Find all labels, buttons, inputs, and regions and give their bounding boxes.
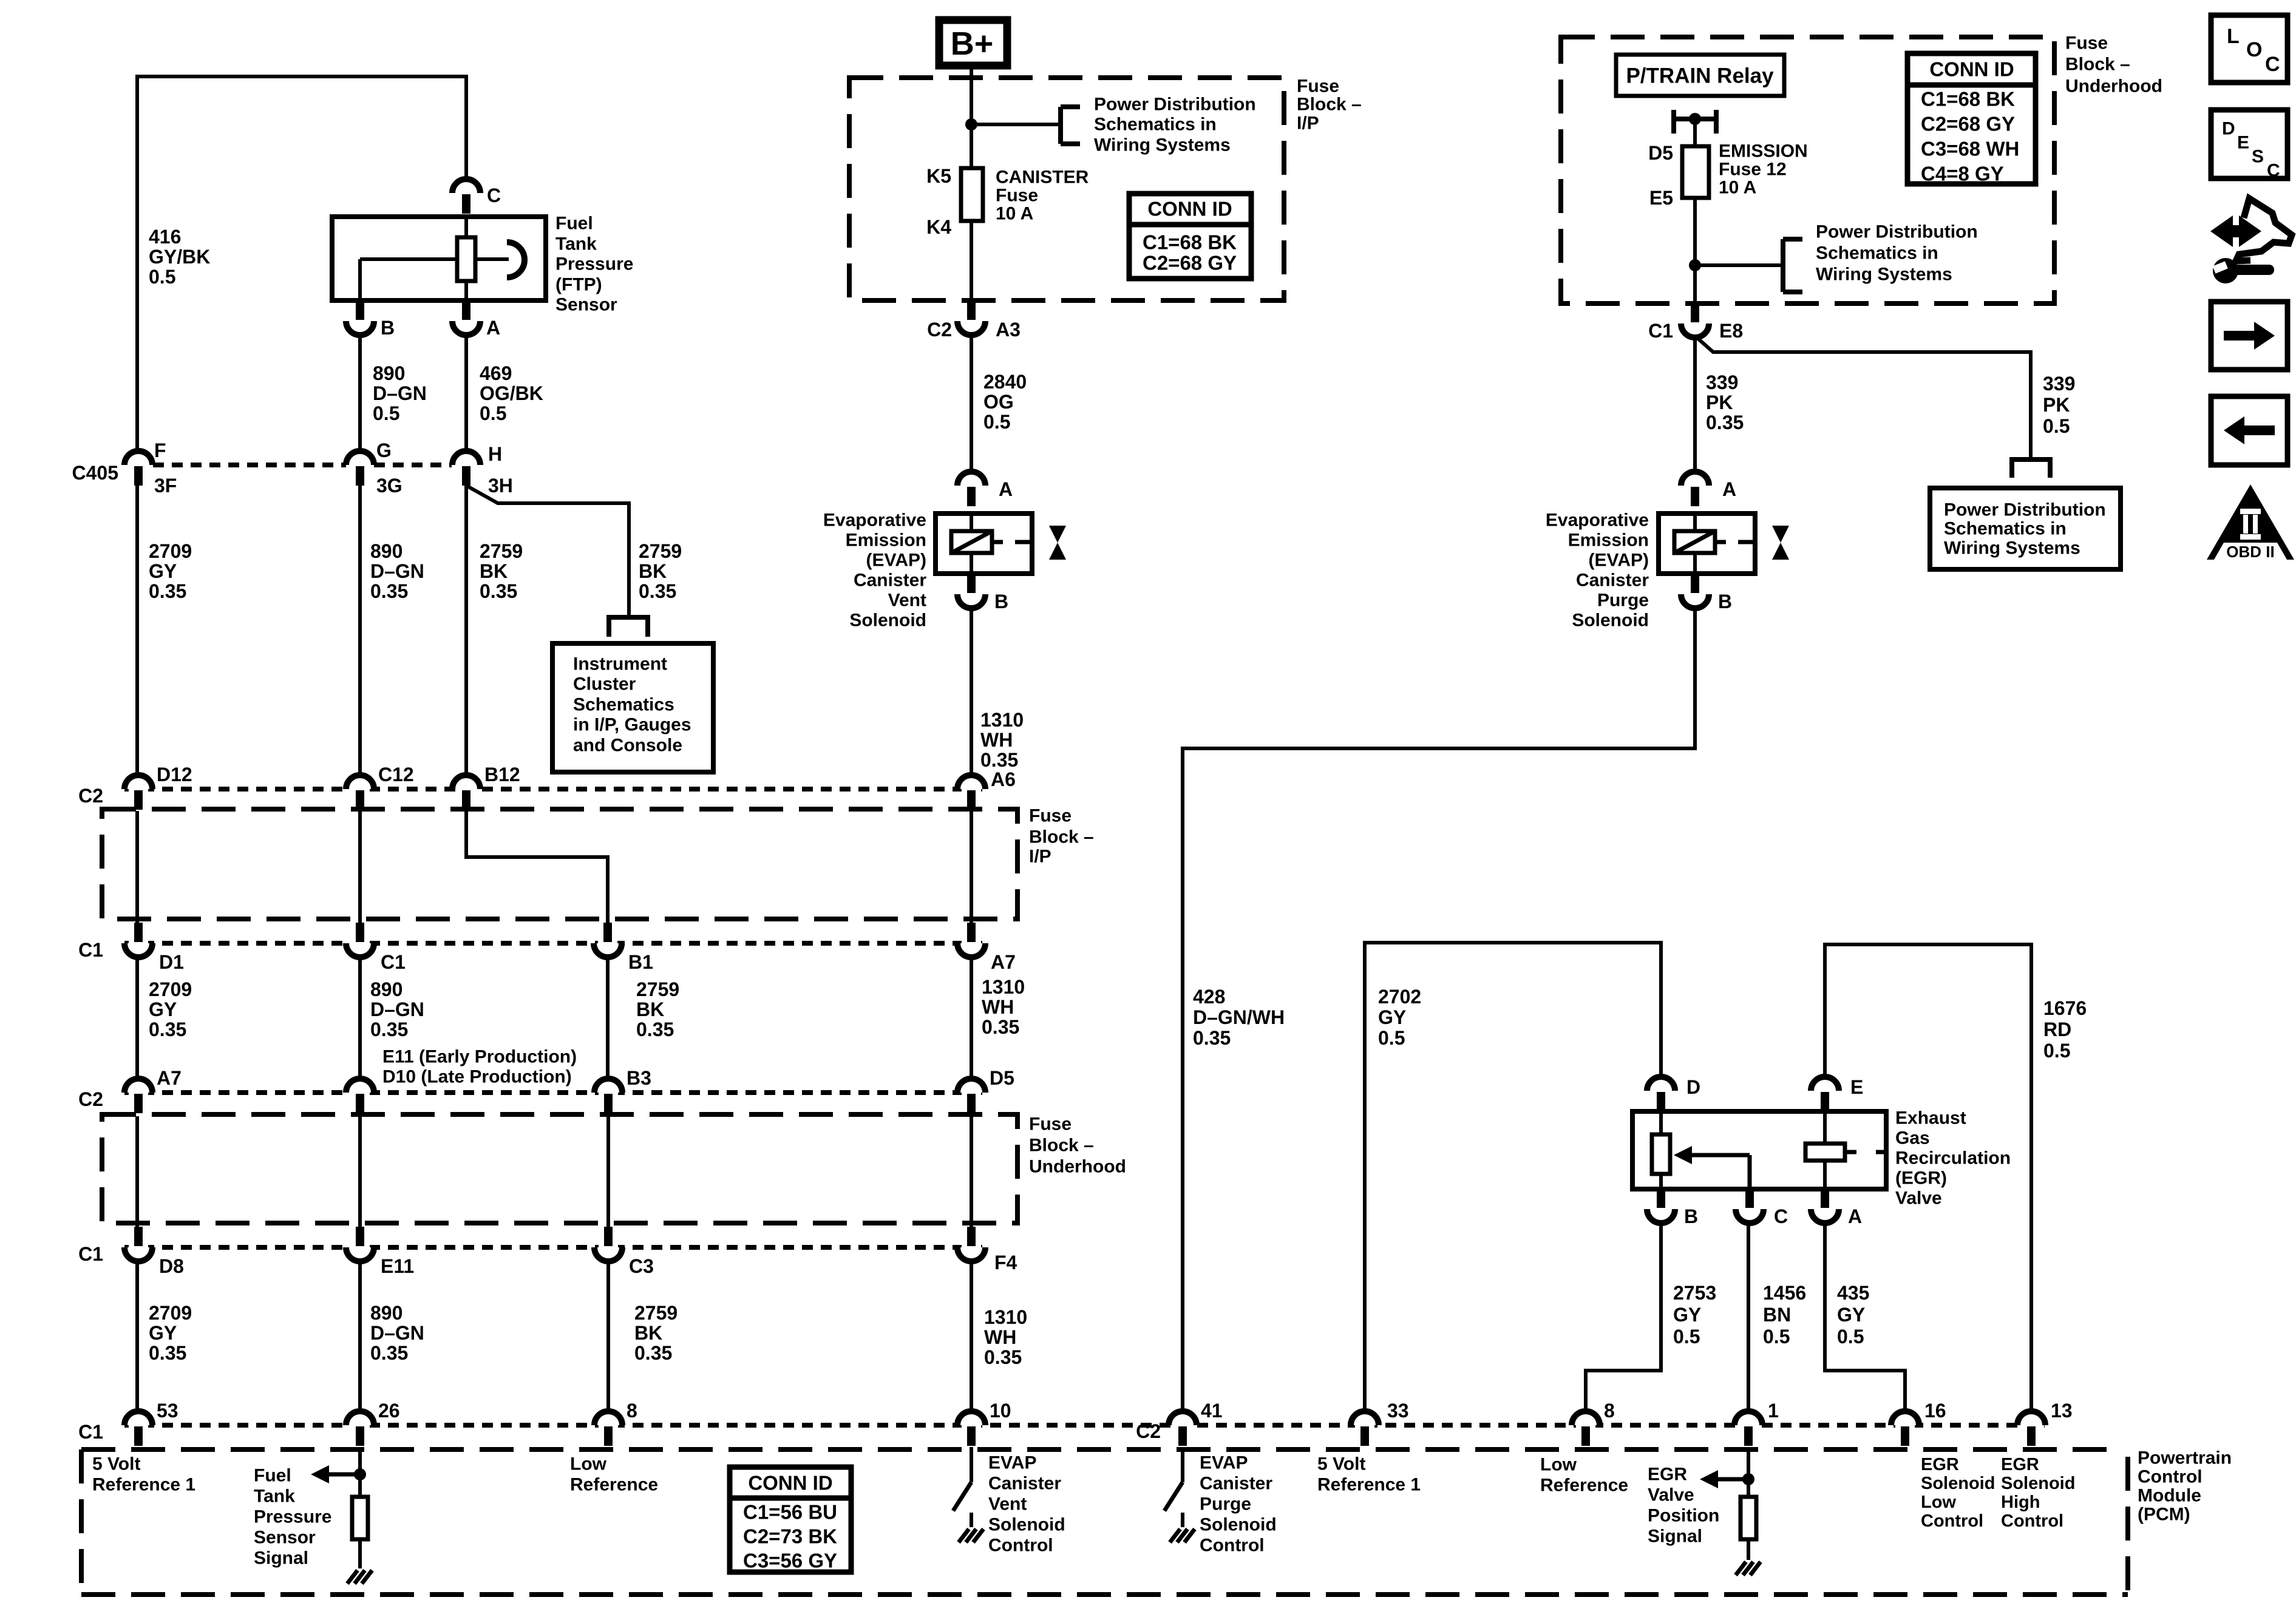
svg-text:I/P: I/P [1029, 847, 1051, 867]
svg-text:Schematics: Schematics [573, 695, 674, 715]
svg-text:0.35: 0.35 [634, 1342, 672, 1364]
connector C405 pin H [452, 443, 513, 497]
svg-text:Fuse: Fuse [1297, 76, 1339, 97]
wire label 2759 BK 0.35 [480, 540, 523, 602]
svg-text:Power Distribution: Power Distribution [1944, 500, 2106, 520]
svg-text:D: D [1686, 1076, 1700, 1098]
wire label 2709 GY 0.35 [149, 540, 192, 602]
svg-text:E5: E5 [1649, 187, 1673, 209]
svg-text:Reference: Reference [570, 1475, 658, 1495]
svg-text:Evaporative: Evaporative [823, 510, 926, 531]
powertrain control module dashed box [81, 1449, 2128, 1595]
svg-text:0.5: 0.5 [983, 411, 1010, 433]
connector pin A of FTP sensor [452, 300, 500, 339]
svg-text:Control: Control [988, 1536, 1053, 1556]
EGR valve box [1632, 1111, 1886, 1189]
wire 1310 WH 0.35 segment (F4-10) [970, 1261, 973, 1411]
svg-text:428: 428 [1193, 986, 1225, 1008]
svg-text:C: C [1774, 1205, 1788, 1227]
svg-text:Fuse: Fuse [996, 186, 1038, 206]
wire 2709 GY 0.35 segment [135, 486, 139, 775]
svg-text:0.35: 0.35 [982, 1016, 1019, 1038]
svg-text:B+: B+ [951, 25, 994, 62]
svg-text:A7: A7 [157, 1067, 182, 1089]
svg-text:WH: WH [984, 1326, 1016, 1348]
power distribution note (underhood) [1816, 222, 1978, 285]
purge solenoid valve symbol [1772, 526, 1789, 560]
svg-text:GY: GY [149, 560, 177, 582]
ground (FTP signal) [347, 1570, 372, 1584]
fuse block underhood dashed box (top right) [1561, 37, 2054, 303]
connector C1 label [78, 939, 103, 961]
svg-text:Reference 1: Reference 1 [1317, 1475, 1421, 1495]
svg-text:0.35: 0.35 [370, 1342, 408, 1364]
svg-text:C1: C1 [381, 951, 406, 973]
svg-text:Gas: Gas [1895, 1128, 1930, 1148]
svg-text:Reference 1: Reference 1 [92, 1475, 195, 1495]
svg-text:Low: Low [1921, 1493, 1956, 1512]
wire label 890 D-GN 0.35 [370, 540, 424, 602]
svg-text:OG/BK: OG/BK [480, 382, 543, 404]
svg-text:B: B [1684, 1205, 1698, 1227]
EGR potentiometer wiper arrow [1674, 1146, 1750, 1189]
connector row C1 dotted line [124, 941, 985, 946]
svg-text:3H: 3H [488, 475, 513, 497]
svg-text:and Console: and Console [573, 736, 682, 756]
svg-text:OBD II: OBD II [2226, 543, 2274, 561]
EMISSION fuse D5/E5 [1648, 142, 1709, 209]
svg-text:0.5: 0.5 [2043, 415, 2070, 437]
connector pin B of purge solenoid [1681, 574, 1732, 612]
vent solenoid valve symbol [1049, 526, 1066, 560]
svg-text:A: A [1722, 478, 1736, 500]
power distribution schematics box [1930, 488, 2121, 569]
connector C2/A3 [927, 300, 1021, 341]
svg-text:C2=68 GY: C2=68 GY [1143, 252, 1237, 274]
connector pin D12 [124, 764, 192, 810]
svg-text:D5: D5 [1648, 142, 1673, 164]
svg-text:0.35: 0.35 [1193, 1027, 1231, 1049]
connector C2 label [78, 785, 103, 807]
svg-text:BK: BK [634, 1322, 662, 1344]
vent solenoid coil [951, 514, 1032, 574]
CONN ID table (fuse block underhood) [1907, 53, 2036, 185]
svg-text:Canister: Canister [988, 1474, 1061, 1494]
svg-text:C2: C2 [1136, 1420, 1161, 1442]
svg-text:Block –: Block – [1029, 1136, 1094, 1156]
fuel tank pressure sensor box [332, 217, 546, 300]
svg-text:Vent: Vent [988, 1494, 1027, 1514]
svg-text:1310: 1310 [984, 1306, 1027, 1328]
svg-text:2702: 2702 [1378, 986, 1421, 1008]
svg-text:EVAP: EVAP [1200, 1453, 1248, 1473]
svg-text:Solenoid: Solenoid [988, 1515, 1065, 1535]
svg-text:890: 890 [373, 362, 405, 384]
EGR valve coil [1805, 1111, 1886, 1189]
svg-text:D–GN/WH: D–GN/WH [1193, 1006, 1285, 1028]
svg-text:Power Distribution: Power Distribution [1094, 95, 1256, 115]
EGR solenoid low control label [1921, 1455, 1995, 1531]
EMISSION fuse label [1719, 141, 1808, 198]
svg-text:G: G [376, 439, 392, 461]
connector C405 pin F [124, 439, 177, 497]
connector C2 label 2 [78, 1088, 103, 1110]
svg-text:High: High [2001, 1493, 2040, 1512]
EGR valve position potentiometer [1652, 1111, 1670, 1189]
svg-text:Sensor: Sensor [555, 295, 617, 315]
svg-text:Powertrain: Powertrain [2138, 1448, 2232, 1468]
wire label 1456 BN 0.5 [1763, 1282, 1806, 1347]
fuse block I/P dashed box (left) [102, 806, 1094, 920]
wire 2759 BK 0.35 segment 2 [606, 957, 610, 1079]
wire fuse to junction [1693, 198, 1697, 303]
P/TRAIN relay feed bracket [1674, 110, 1716, 134]
power distribution bracket (339 PK) [2012, 459, 2050, 478]
wire 339 PK 0.5 branch [1698, 339, 2031, 458]
svg-text:BK: BK [636, 998, 664, 1020]
wire C12 to C1 in fuse block [358, 811, 362, 923]
svg-text:53: 53 [157, 1400, 178, 1422]
EGR valve position signal label [1648, 1465, 1719, 1547]
svg-text:0.35: 0.35 [980, 749, 1018, 771]
svg-text:10: 10 [990, 1400, 1011, 1422]
svg-text:C1: C1 [1648, 320, 1673, 342]
svg-text:BN: BN [1763, 1304, 1791, 1326]
svg-text:0.5: 0.5 [373, 402, 399, 424]
svg-text:2840: 2840 [983, 371, 1027, 393]
PCM low reference (left) [570, 1454, 658, 1495]
connector pin A7 [957, 923, 1016, 973]
svg-text:D–GN: D–GN [370, 1322, 424, 1344]
svg-text:K5: K5 [926, 165, 951, 187]
connector pin 8 (low ref right) [1572, 1400, 1615, 1446]
fuel tank pressure sensor signal net [311, 1447, 366, 1497]
svg-text:Wiring Systems: Wiring Systems [1944, 538, 2080, 558]
svg-text:8: 8 [1604, 1400, 1615, 1422]
svg-text:2759: 2759 [634, 1302, 678, 1324]
connector pin 16 [1891, 1400, 1946, 1446]
wire 890 D-GN 0.35 segment 2 [358, 957, 362, 1079]
EVAP canister vent solenoid label [823, 510, 926, 631]
note E11 early production [382, 1047, 577, 1067]
svg-text:Wiring Systems: Wiring Systems [1094, 135, 1231, 155]
svg-text:C1=68 BK: C1=68 BK [1921, 88, 2015, 110]
EGR valve position signal net [1700, 1447, 1754, 1497]
svg-text:5 Volt: 5 Volt [92, 1454, 140, 1474]
fuse block I/P dashed box (top middle) [849, 78, 1284, 300]
svg-text:A6: A6 [991, 768, 1016, 790]
wire label 2702 GY 0.5 [1378, 986, 1421, 1049]
svg-text:BK: BK [480, 560, 508, 582]
svg-text:1310: 1310 [980, 709, 1024, 731]
svg-text:Emission: Emission [1568, 531, 1649, 551]
svg-text:CONN ID: CONN ID [1929, 58, 2014, 81]
connector pin B1 [594, 923, 653, 973]
note D10 late production [382, 1067, 572, 1087]
svg-text:0.5: 0.5 [1378, 1027, 1405, 1049]
svg-text:E: E [1850, 1076, 1863, 1098]
svg-text:41: 41 [1201, 1400, 1223, 1422]
forward arrow icon box [2211, 302, 2288, 370]
svg-text:D5: D5 [990, 1067, 1014, 1089]
svg-text:I/P: I/P [1297, 114, 1319, 134]
wire label 890 D-GN 0.35 (3) [370, 1302, 424, 1364]
svg-text:Pressure: Pressure [555, 254, 633, 274]
connector pin A of vent solenoid [957, 472, 1013, 506]
svg-text:EVAP: EVAP [988, 1453, 1036, 1473]
svg-text:B: B [381, 317, 395, 339]
svg-text:1310: 1310 [982, 976, 1025, 998]
svg-text:16: 16 [1924, 1400, 1946, 1422]
wire label 1310 WH 0.35 (top) [980, 709, 1024, 771]
svg-text:Control: Control [1200, 1536, 1265, 1556]
svg-text:339: 339 [1706, 371, 1738, 393]
svg-text:10 A: 10 A [996, 204, 1033, 224]
wire label 2759 BK 0.35 (branch) [639, 540, 682, 602]
svg-text:GY: GY [1378, 1006, 1406, 1028]
wire label 339 PK 0.35 [1706, 371, 1744, 433]
wire 2759 BK branch to instrument cluster [466, 486, 629, 616]
connector row C2 dotted line [124, 787, 985, 792]
svg-text:8: 8 [627, 1400, 637, 1422]
connector pin A of EGR valve [1811, 1188, 1862, 1227]
svg-text:D–GN: D–GN [373, 382, 427, 404]
CANISTER fuse K5/K4 [926, 165, 983, 238]
svg-text:C1: C1 [78, 939, 103, 961]
FTP sensor internal wiper wiring [360, 242, 525, 300]
svg-text:(FTP): (FTP) [555, 275, 602, 295]
wire 890 D-GN 0.35 segment [358, 486, 362, 775]
connector C1 label 2 [78, 1243, 103, 1265]
svg-text:Module: Module [2138, 1486, 2201, 1506]
svg-text:D–GN: D–GN [370, 998, 424, 1020]
svg-text:B: B [994, 591, 1008, 612]
wire 469 OG/BK 0.5 [464, 335, 468, 451]
svg-text:Exhaust: Exhaust [1895, 1108, 1966, 1128]
svg-text:B1: B1 [628, 951, 653, 973]
connector pin 26 [346, 1400, 400, 1446]
svg-text:C4=8 GY: C4=8 GY [1921, 163, 2004, 185]
svg-text:0.5: 0.5 [1763, 1326, 1790, 1347]
connector pin A7 (row2) [124, 1067, 182, 1113]
svg-text:33: 33 [1387, 1400, 1409, 1422]
svg-text:B: B [1718, 591, 1732, 612]
wire 435 GY 0.5 [1825, 1223, 1905, 1411]
EVAP canister purge solenoid box [1659, 514, 1755, 574]
back arrow icon box [2211, 396, 2288, 465]
svg-text:A3: A3 [996, 319, 1021, 341]
svg-text:GY: GY [1837, 1304, 1865, 1326]
CONN ID table (fuse block I/P) [1129, 194, 1251, 279]
connector pin B of vent solenoid [957, 574, 1008, 612]
wire 2709 GY 0.35 segment 2 [135, 957, 139, 1079]
wire 2759 BK 0.35 segment [464, 486, 468, 775]
connector C1/E8 [1648, 303, 1743, 342]
svg-text:2753: 2753 [1673, 1282, 1716, 1304]
svg-text:S: S [2252, 147, 2264, 167]
svg-text:Block –: Block – [1029, 827, 1094, 847]
svg-text:0.35: 0.35 [149, 580, 186, 602]
EVAP purge solenoid control switch [1164, 1447, 1183, 1527]
svg-text:GY: GY [149, 998, 177, 1020]
ground (purge solenoid control) [1170, 1529, 1195, 1542]
wire label 416 GY/BK 0.5 [149, 226, 210, 288]
svg-text:D: D [2222, 119, 2235, 139]
PCM connector C2 label [1136, 1420, 1161, 1442]
svg-text:PK: PK [2043, 394, 2070, 416]
wire B12 jog to B1 in fuse block [466, 811, 608, 923]
svg-text:469: 469 [480, 362, 512, 384]
connector pin C12 [346, 764, 414, 810]
connector C405 dashed line [153, 463, 452, 467]
svg-text:C1=56 BU: C1=56 BU [743, 1501, 837, 1524]
svg-text:2709: 2709 [149, 1302, 192, 1324]
LOC icon box [2211, 15, 2288, 83]
instrument cluster connect bracket [609, 617, 648, 637]
fuse block underhood dashed box (left) [102, 1114, 1126, 1224]
wire 2840 OG 0.5 [970, 335, 973, 472]
svg-text:Valve: Valve [1895, 1188, 1942, 1209]
svg-text:2709: 2709 [149, 978, 192, 1000]
EVAP canister vent solenoid box [936, 514, 1032, 574]
wire label 1310 WH 0.35 (2) [984, 1306, 1027, 1368]
CONN ID table (PCM) [730, 1467, 851, 1572]
svg-text:Vent: Vent [888, 591, 926, 611]
svg-text:Solenoid: Solenoid [2001, 1474, 2075, 1493]
svg-text:890: 890 [370, 978, 402, 1000]
connector pin D8 [124, 1227, 184, 1277]
svg-text:Purge: Purge [1200, 1494, 1251, 1514]
connector pin F4 [957, 1227, 1017, 1273]
svg-text:0.5: 0.5 [149, 266, 175, 288]
svg-text:A: A [1848, 1205, 1862, 1227]
svg-text:Block –: Block – [1297, 95, 1362, 115]
connector pin 13 [2017, 1400, 2073, 1446]
svg-text:0.5: 0.5 [480, 402, 506, 424]
connector pin 10 [957, 1400, 1011, 1446]
svg-text:Solenoid: Solenoid [1200, 1515, 1277, 1535]
EVAP canister purge solenoid label [1546, 510, 1649, 631]
svg-text:3F: 3F [154, 475, 177, 497]
connector pin 33 [1351, 1400, 1409, 1446]
wire label 2840 OG 0.5 [983, 371, 1027, 433]
svg-text:Power Distribution: Power Distribution [1816, 222, 1978, 242]
svg-text:Signal: Signal [1648, 1527, 1702, 1547]
svg-text:0.5: 0.5 [1837, 1326, 1864, 1347]
svg-text:Evaporative: Evaporative [1546, 510, 1649, 531]
svg-text:Underhood: Underhood [1029, 1157, 1126, 1177]
fuse block I/P title [1297, 76, 1362, 134]
wire 1676 RD 0.5 [1825, 944, 2031, 1411]
svg-text:Schematics in: Schematics in [1944, 519, 2067, 539]
svg-text:(PCM): (PCM) [2138, 1505, 2190, 1525]
svg-text:A7: A7 [991, 951, 1016, 973]
svg-text:3G: 3G [376, 475, 402, 497]
svg-text:E11: E11 [381, 1255, 414, 1277]
svg-text:E8: E8 [1719, 320, 1743, 342]
svg-text:GY: GY [149, 1322, 177, 1344]
power distribution note (I/P) [1094, 95, 1256, 155]
wire label 2709 GY 0.35 (2) [149, 978, 192, 1040]
wire label 469 OG/BK 0.5 [480, 362, 543, 424]
svg-text:in I/P, Gauges: in I/P, Gauges [573, 715, 691, 735]
connector pin 1 [1734, 1400, 1779, 1446]
svg-text:Purge: Purge [1597, 591, 1649, 611]
connector pin E11 (row) [346, 1227, 414, 1277]
fuse block underhood title [2065, 33, 2162, 97]
svg-text:L: L [2227, 25, 2240, 48]
svg-text:Low: Low [570, 1454, 607, 1474]
svg-text:Cluster: Cluster [573, 674, 636, 694]
svg-text:EGR: EGR [1648, 1465, 1687, 1485]
svg-text:Schematics in: Schematics in [1094, 115, 1217, 135]
svg-text:Fuse 12: Fuse 12 [1719, 160, 1787, 180]
svg-text:0.35: 0.35 [149, 1019, 186, 1040]
connector pin E11/D10 [346, 1079, 374, 1113]
purge solenoid coil [1674, 514, 1755, 574]
svg-text:416: 416 [149, 226, 181, 248]
connector pin C of FTP sensor [452, 179, 501, 214]
wire 1310 WH 0.35 segment (A7-D5) [970, 957, 973, 1079]
wire label 1310 WH 0.35 [982, 976, 1025, 1038]
svg-text:C1=68 BK: C1=68 BK [1143, 231, 1237, 254]
svg-text:Wiring Systems: Wiring Systems [1816, 265, 1952, 285]
svg-text:Canister: Canister [1576, 571, 1649, 591]
svg-text:K4: K4 [926, 216, 951, 238]
wire label 2759 BK 0.35 (2) [636, 978, 679, 1040]
svg-text:C1: C1 [78, 1421, 103, 1443]
connector pin E of EGR valve [1811, 1076, 1863, 1111]
svg-text:P/TRAIN Relay: P/TRAIN Relay [1626, 64, 1774, 88]
wire A7-D8 in fuse block [135, 1116, 139, 1227]
svg-text:Valve: Valve [1648, 1485, 1694, 1505]
svg-text:0.5: 0.5 [2043, 1040, 2070, 1062]
ground (EGR position signal) [1736, 1562, 1761, 1575]
EGR position signal resistor [1741, 1497, 1756, 1560]
PCM connector row dotted line [124, 1423, 2045, 1428]
svg-text:Fuel: Fuel [254, 1466, 291, 1486]
svg-text:Fuse: Fuse [1029, 1114, 1072, 1134]
svg-text:2759: 2759 [639, 540, 682, 562]
svg-text:A: A [999, 478, 1013, 500]
svg-text:2759: 2759 [480, 540, 523, 562]
svg-text:Fuse: Fuse [2065, 33, 2108, 53]
PCM 5 volt reference 1 (right) [1317, 1454, 1421, 1495]
svg-text:890: 890 [370, 1302, 402, 1324]
svg-text:Fuel: Fuel [555, 214, 593, 234]
svg-text:0.35: 0.35 [149, 1342, 186, 1364]
wire 2759 BK 0.35 segment 3 [606, 1261, 610, 1411]
svg-text:Signal: Signal [254, 1548, 308, 1568]
connector pin 8 (low ref left) [594, 1400, 637, 1446]
svg-text:Solenoid: Solenoid [1572, 611, 1649, 631]
svg-text:C2=73 BK: C2=73 BK [743, 1525, 837, 1548]
svg-text:Canister: Canister [1200, 1474, 1272, 1494]
connector C405 label [72, 462, 119, 484]
svg-text:0.35: 0.35 [1706, 412, 1744, 433]
svg-text:EMISSION: EMISSION [1719, 141, 1808, 161]
wire E11-E11 in fuse block [358, 1116, 362, 1227]
svg-text:CONN ID: CONN ID [1147, 198, 1232, 220]
wire label 428 D-GN/WH 0.35 [1193, 986, 1285, 1049]
svg-text:BK: BK [639, 560, 667, 582]
svg-text:Control: Control [2138, 1467, 2203, 1487]
P/TRAIN relay box [1616, 55, 1784, 96]
PCM connector C1 label [78, 1421, 103, 1443]
wire label 339 PK 0.5 [2043, 373, 2075, 437]
svg-text:WH: WH [980, 729, 1013, 751]
PCM low reference (right) [1540, 1455, 1628, 1496]
